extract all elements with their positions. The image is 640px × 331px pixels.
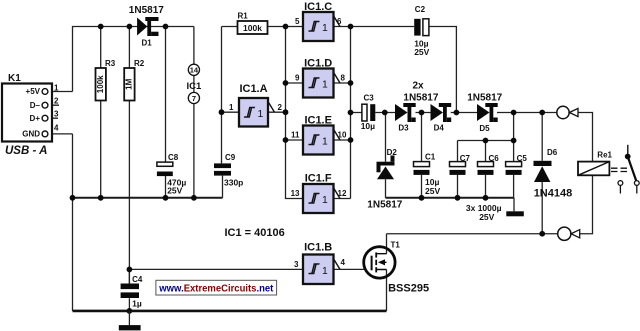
svg-text:IC1.D: IC1.D <box>304 57 332 69</box>
svg-text:C8: C8 <box>168 153 179 162</box>
svg-text:K1: K1 <box>8 73 21 84</box>
svg-text:2x: 2x <box>412 80 424 91</box>
svg-text:7: 7 <box>192 94 196 103</box>
svg-text:IC1: IC1 <box>187 81 203 92</box>
svg-text:IC1.E: IC1.E <box>304 114 332 126</box>
svg-text:C5: C5 <box>517 154 528 163</box>
svg-text:D4: D4 <box>434 123 445 132</box>
svg-text:10µ: 10µ <box>361 121 375 131</box>
svg-text:1N5817: 1N5817 <box>403 92 438 103</box>
svg-text:D3: D3 <box>398 123 409 132</box>
svg-text:14: 14 <box>190 66 199 75</box>
svg-text:IC1.B: IC1.B <box>304 242 332 254</box>
svg-text:3: 3 <box>294 260 299 269</box>
svg-text:1N5817: 1N5817 <box>367 200 402 211</box>
svg-text:C1: C1 <box>425 153 436 162</box>
svg-text:1N5817: 1N5817 <box>129 5 164 16</box>
svg-text:8: 8 <box>341 74 346 83</box>
svg-text:11: 11 <box>291 131 300 140</box>
svg-text:GND: GND <box>22 130 40 139</box>
svg-text:D6: D6 <box>547 148 558 157</box>
svg-text:330p: 330p <box>224 178 243 188</box>
svg-text:1N4148: 1N4148 <box>534 187 573 199</box>
svg-text:IC1.A: IC1.A <box>239 83 267 95</box>
svg-text:C2: C2 <box>415 5 426 14</box>
svg-text:T1: T1 <box>391 240 401 249</box>
svg-text:Re1: Re1 <box>597 150 612 159</box>
svg-text:3: 3 <box>54 110 59 119</box>
svg-text:R1: R1 <box>238 11 249 20</box>
svg-text:IC1.F: IC1.F <box>305 173 332 185</box>
svg-text:C6: C6 <box>489 154 500 163</box>
svg-text:1: 1 <box>322 195 328 206</box>
svg-text:2: 2 <box>54 97 59 106</box>
svg-text:2: 2 <box>278 103 283 112</box>
svg-text:1M: 1M <box>125 78 134 89</box>
svg-text:IC1.C: IC1.C <box>304 1 332 13</box>
svg-text:D–: D– <box>30 101 41 110</box>
svg-text:1: 1 <box>322 80 328 91</box>
svg-text:C9: C9 <box>225 153 236 162</box>
svg-text:10: 10 <box>338 131 347 140</box>
svg-text:C7: C7 <box>460 154 471 163</box>
svg-text:1: 1 <box>229 103 234 112</box>
svg-text:IC1 = 40106: IC1 = 40106 <box>225 227 285 239</box>
svg-text:25V: 25V <box>479 212 494 222</box>
svg-text:4: 4 <box>54 123 59 132</box>
svg-text:100k: 100k <box>243 23 262 33</box>
svg-text:1µ: 1µ <box>132 299 142 309</box>
svg-text:13: 13 <box>291 189 300 198</box>
svg-text:www.ExtremeCircuits.net: www.ExtremeCircuits.net <box>158 282 273 294</box>
svg-text:C3: C3 <box>364 94 375 103</box>
svg-text:25V: 25V <box>425 186 440 196</box>
svg-text:R2: R2 <box>134 59 145 68</box>
svg-text:1: 1 <box>322 137 328 148</box>
svg-text:1: 1 <box>322 266 328 277</box>
svg-text:25V: 25V <box>167 186 182 196</box>
svg-text:USB - A: USB - A <box>5 145 47 157</box>
svg-text:+5V: +5V <box>26 87 41 96</box>
svg-text:D+: D+ <box>30 114 41 123</box>
svg-text:9: 9 <box>295 74 300 83</box>
svg-text:D1: D1 <box>141 39 152 48</box>
svg-text:C4: C4 <box>132 275 143 284</box>
svg-text:25V: 25V <box>414 47 429 57</box>
svg-text:100k: 100k <box>96 75 105 93</box>
svg-text:1: 1 <box>322 23 328 34</box>
svg-text:R3: R3 <box>105 59 116 68</box>
svg-text:1: 1 <box>258 109 264 120</box>
svg-text:12: 12 <box>338 189 347 198</box>
svg-text:5: 5 <box>295 17 300 26</box>
svg-text:BSS295: BSS295 <box>388 282 429 294</box>
svg-text:1N5817: 1N5817 <box>467 92 502 103</box>
svg-text:4: 4 <box>341 258 346 267</box>
svg-text:6: 6 <box>337 17 342 26</box>
svg-text:D2: D2 <box>387 148 398 157</box>
svg-text:D5: D5 <box>479 124 490 133</box>
svg-text:1: 1 <box>54 83 59 92</box>
